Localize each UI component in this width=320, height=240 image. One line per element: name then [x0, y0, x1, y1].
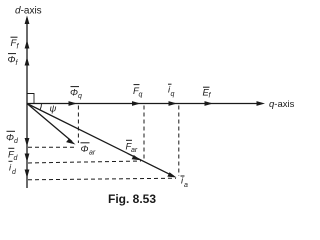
label Fq — [133, 85, 143, 99]
label Ff — [11, 37, 20, 50]
vector Fq arrowhead on q-axis — [132, 101, 141, 106]
svg-text:Fig. 8.53: Fig. 8.53 — [108, 192, 156, 206]
svg-text:q: q — [171, 91, 175, 98]
svg-text:f: f — [209, 93, 212, 100]
svg-text:ar: ar — [89, 150, 96, 157]
svg-text:q: q — [78, 93, 82, 100]
dashed vertical projection from Iq tip — [178, 106, 180, 177]
vector Ia (line from origin to Ia tip, Far arrowhead partway) — [27, 104, 177, 178]
dashed horizontal projection at Id level — [28, 178, 176, 180]
svg-text:a: a — [184, 182, 188, 189]
dashed horizontal projection at Phi_d level — [28, 146, 77, 148]
label Iq — [168, 84, 175, 98]
svg-text:f: f — [16, 60, 19, 67]
svg-text:d-axis: d-axis — [15, 6, 42, 17]
vector Iq arrowhead on q-axis — [169, 101, 178, 106]
label Phi_q — [70, 87, 82, 100]
d-axis line — [26, 18, 28, 188]
vector Fd arrowhead on negative d-axis — [25, 154, 30, 163]
vector Phi_ar — [27, 104, 76, 145]
vector Phi_d arrowhead on negative d-axis — [25, 138, 30, 147]
label Phi_ar — [81, 143, 96, 157]
svg-text:Φ: Φ — [6, 133, 14, 144]
vector Phi_f arrowhead on d-axis — [25, 57, 30, 66]
label Ia — [181, 176, 189, 190]
svg-text:ψ: ψ — [50, 104, 57, 115]
vector Ef arrowhead on q-axis — [205, 101, 214, 106]
label Phi_f — [8, 54, 19, 67]
right-angle mark at origin — [27, 94, 34, 104]
angle psi arc — [40, 104, 42, 111]
q-axis arrowhead — [257, 101, 266, 106]
label Phi_d — [6, 131, 19, 145]
q-axis line — [27, 103, 262, 105]
vector Ff arrowhead on d-axis — [25, 40, 30, 49]
dashed vertical projection from Phi_q tip — [77, 106, 79, 144]
svg-text:q-axis: q-axis — [269, 99, 295, 110]
label Far — [126, 140, 138, 154]
svg-text:ar: ar — [131, 147, 138, 154]
svg-text:Φ: Φ — [8, 55, 16, 66]
svg-text:f: f — [17, 44, 20, 51]
dashed horizontal projection at Fd level — [28, 161, 141, 163]
label Id — [9, 161, 18, 176]
label Fd — [8, 148, 19, 162]
d-axis arrowhead — [25, 16, 30, 25]
svg-text:Φ: Φ — [70, 88, 78, 99]
svg-text:q: q — [139, 92, 143, 99]
vector Phi_q arrowhead on q-axis — [69, 101, 78, 106]
vector Id arrowhead on negative d-axis — [25, 170, 30, 179]
svg-text:d: d — [14, 155, 19, 162]
label Ef — [203, 87, 212, 99]
svg-text:d: d — [12, 169, 17, 176]
svg-text:d: d — [14, 138, 19, 145]
dashed vertical projection from Fq tip — [143, 106, 145, 160]
svg-text:Φ: Φ — [81, 144, 89, 155]
vector Far arrowhead — [132, 155, 141, 160]
